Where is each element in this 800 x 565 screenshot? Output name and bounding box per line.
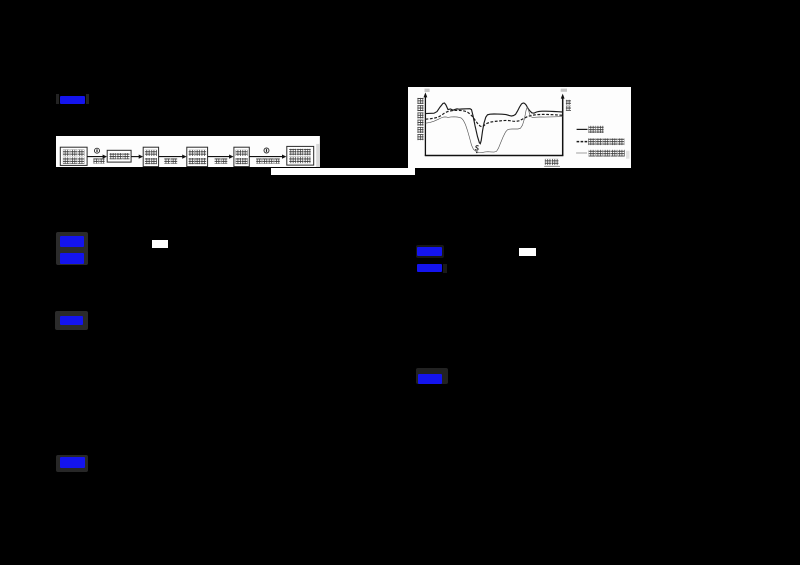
node gray tick right-top: [561, 89, 567, 92]
legend dashed 甲生态系统: [577, 141, 588, 143]
node blue-answer-4: [60, 316, 83, 325]
node blue-answer-6: [417, 264, 442, 272]
label 激活: [164, 158, 170, 163]
label 吞噬细胞: [256, 158, 262, 163]
node gray scroll strip: [316, 144, 320, 167]
node gray smudge: [626, 151, 629, 159]
wire lower white strip under chart-left: [271, 168, 415, 175]
chart ecosystem population vs time: [408, 87, 631, 168]
node right axis with arrow: [562, 96, 564, 156]
box 清除凋亡细胞: [287, 146, 314, 165]
node white panel background: [408, 87, 631, 168]
box 细胞凋亡: [234, 147, 249, 166]
label 种群类型数量 (vertical): [417, 98, 423, 104]
node y-axis left with arrow: [424, 95, 426, 156]
wire arrow3: [159, 155, 183, 157]
node dark box right col row3: [416, 368, 448, 385]
legend line 气候: [577, 129, 588, 131]
diagram flowchart (apoptosis pathway): [56, 136, 320, 168]
node blue-answer-2: [60, 236, 85, 247]
node blue-answer-1 (top-left highlighted answer): [56, 94, 60, 104]
node gray tick left-top: [425, 89, 430, 92]
label circled-2: [264, 148, 269, 153]
wire arrow4: [208, 155, 230, 157]
wire arrow2: [131, 155, 139, 157]
wire arrow5: [249, 155, 282, 157]
node blue-answer-7: [418, 374, 442, 384]
node blue-answer-8: [60, 457, 85, 468]
box 凋亡相关基因: [187, 147, 208, 166]
box 凋亡诱导因子: [60, 147, 87, 165]
node dark box right col row1: [416, 245, 444, 258]
label circled-1: [94, 148, 99, 153]
curve thin 乙生态系统: [426, 108, 563, 153]
curve solid 气候: [426, 103, 563, 144]
node dark box around answer rows left: [56, 232, 88, 265]
curve dashed 甲生态系统: [426, 111, 563, 127]
label 执行: [215, 158, 221, 163]
label 时间 with underline: [545, 159, 552, 165]
node blue-answer-5: [417, 247, 441, 256]
box 凋亡信号: [143, 147, 158, 166]
node white band background: [56, 136, 320, 167]
node dark box around answer row3 left: [55, 311, 88, 330]
node white blank B: [519, 248, 536, 256]
label S at dip: [475, 146, 478, 151]
node x-axis: [425, 155, 564, 157]
node dark box bottom-left: [56, 455, 88, 472]
label 结合: [93, 158, 98, 163]
legend thin 乙生态系统: [576, 152, 587, 154]
label 气候 (vertical, right axis): [566, 100, 571, 105]
node blue-answer-3: [60, 253, 84, 264]
node white blank A: [152, 240, 168, 248]
wire arrow1: [87, 155, 103, 157]
box 膜受体: [107, 150, 131, 162]
